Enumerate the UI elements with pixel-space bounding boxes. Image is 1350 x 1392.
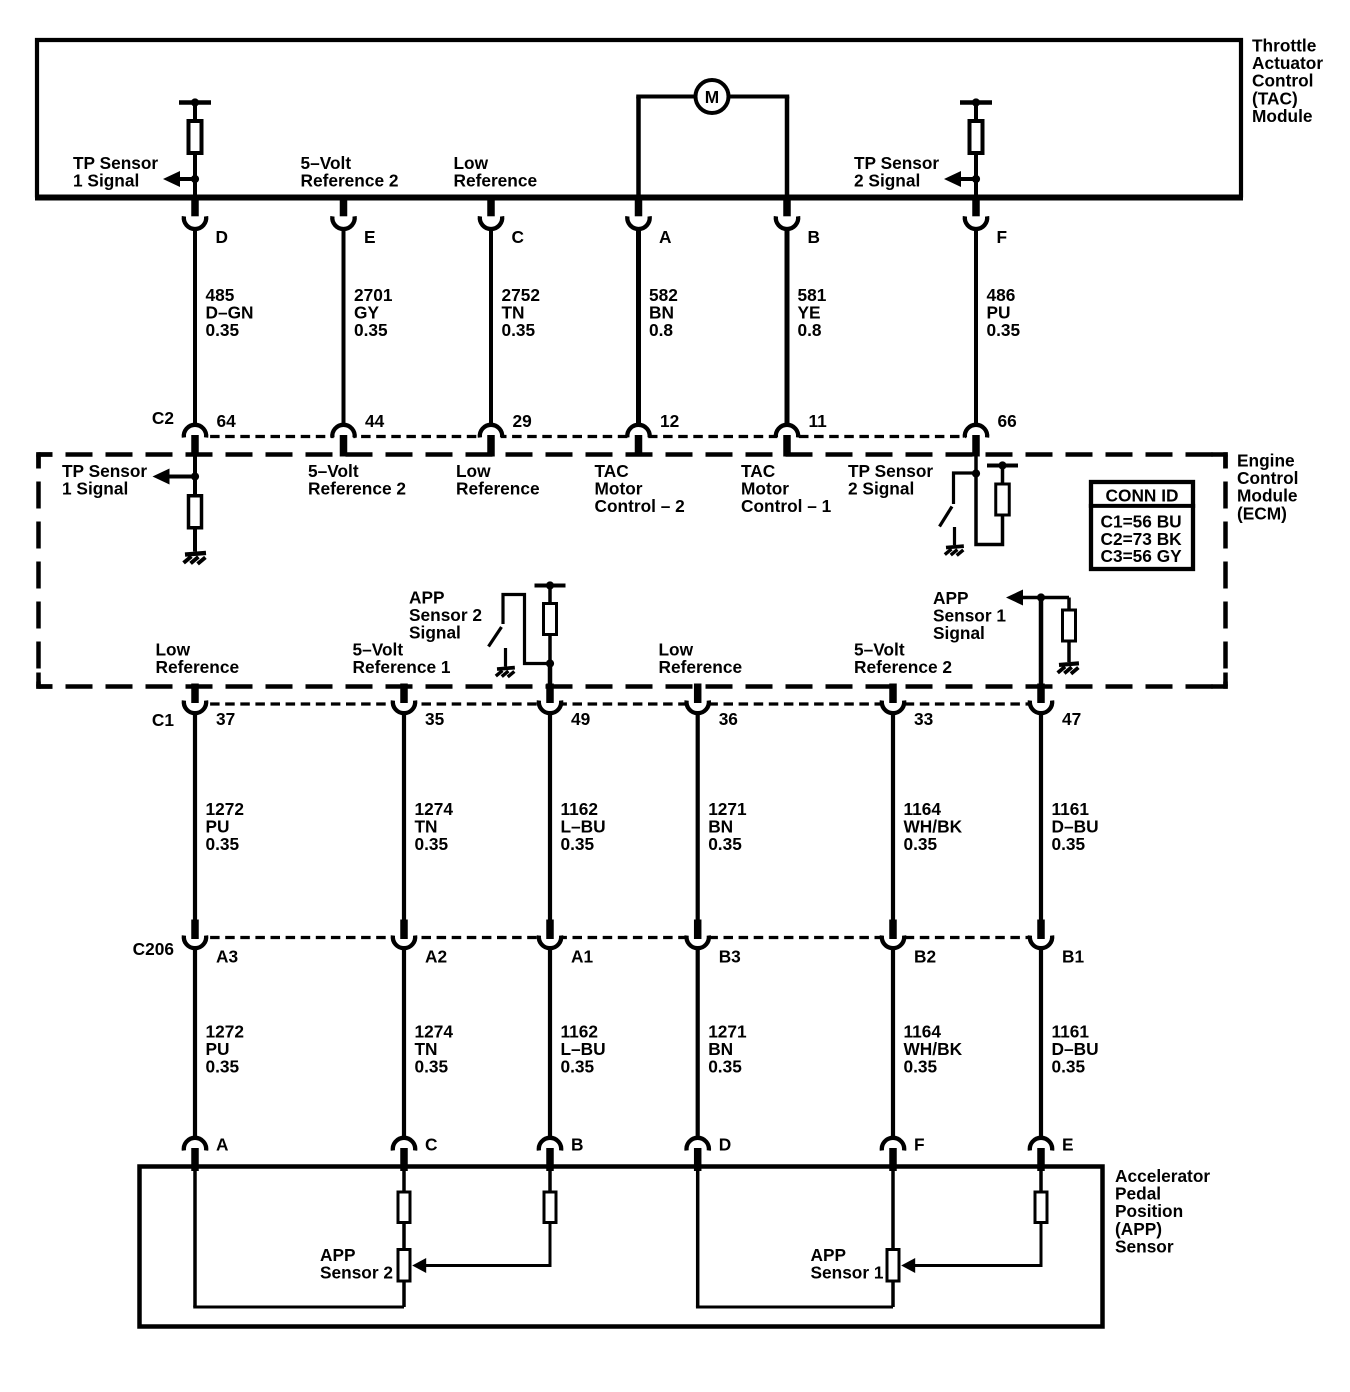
- svg-text:Signal: Signal: [933, 623, 985, 643]
- svg-text:2 Signal: 2 Signal: [848, 479, 914, 499]
- svg-text:D: D: [216, 227, 228, 247]
- svg-text:0.35: 0.35: [561, 834, 595, 854]
- svg-text:36: 36: [719, 709, 738, 729]
- svg-text:C1: C1: [152, 710, 174, 730]
- svg-text:A1: A1: [571, 947, 593, 967]
- svg-text:Control – 1: Control – 1: [741, 496, 832, 516]
- svg-text:0.35: 0.35: [561, 1057, 595, 1077]
- svg-text:A2: A2: [425, 947, 447, 967]
- svg-text:33: 33: [914, 709, 933, 729]
- svg-text:0.35: 0.35: [987, 320, 1021, 340]
- svg-text:A: A: [216, 1135, 229, 1155]
- svg-text:Module: Module: [1252, 106, 1313, 126]
- svg-text:35: 35: [425, 709, 445, 729]
- svg-text:Reference 2: Reference 2: [854, 657, 952, 677]
- svg-text:0.35: 0.35: [708, 1057, 742, 1077]
- svg-text:0.35: 0.35: [1052, 1057, 1086, 1077]
- svg-text:F: F: [914, 1135, 925, 1155]
- svg-text:F: F: [997, 227, 1008, 247]
- svg-text:47: 47: [1062, 709, 1081, 729]
- svg-text:C: C: [425, 1135, 437, 1155]
- svg-text:Reference: Reference: [156, 657, 240, 677]
- svg-text:E: E: [364, 227, 376, 247]
- svg-text:A: A: [659, 227, 672, 247]
- svg-text:0.35: 0.35: [415, 834, 449, 854]
- svg-text:0.35: 0.35: [206, 834, 240, 854]
- svg-text:Sensor: Sensor: [1115, 1236, 1174, 1256]
- svg-text:C2: C2: [152, 408, 174, 428]
- svg-text:1 Signal: 1 Signal: [73, 171, 139, 191]
- svg-text:Reference 1: Reference 1: [353, 657, 451, 677]
- svg-text:0.35: 0.35: [1052, 834, 1086, 854]
- svg-text:0.35: 0.35: [904, 1057, 938, 1077]
- svg-text:49: 49: [571, 709, 590, 729]
- svg-text:C3=56 GY: C3=56 GY: [1101, 546, 1183, 566]
- svg-text:0.35: 0.35: [206, 320, 240, 340]
- svg-text:Signal: Signal: [409, 623, 461, 643]
- svg-text:Reference 2: Reference 2: [308, 479, 406, 499]
- svg-text:0.35: 0.35: [904, 834, 938, 854]
- svg-text:0.8: 0.8: [798, 320, 822, 340]
- svg-text:64: 64: [217, 411, 237, 431]
- svg-text:(ECM): (ECM): [1237, 503, 1287, 523]
- svg-text:Sensor 2: Sensor 2: [320, 1263, 393, 1283]
- svg-text:44: 44: [365, 411, 385, 431]
- svg-text:B2: B2: [914, 947, 936, 967]
- svg-text:C206: C206: [133, 939, 174, 959]
- svg-text:0.35: 0.35: [206, 1057, 240, 1077]
- svg-text:Reference: Reference: [456, 479, 540, 499]
- svg-text:B: B: [571, 1135, 583, 1155]
- svg-text:11: 11: [809, 411, 828, 431]
- svg-text:66: 66: [998, 411, 1017, 431]
- svg-text:CONN ID: CONN ID: [1106, 486, 1179, 506]
- svg-text:Reference 2: Reference 2: [301, 171, 399, 191]
- svg-text:0.8: 0.8: [649, 320, 673, 340]
- svg-text:D: D: [719, 1135, 731, 1155]
- svg-text:A3: A3: [216, 947, 238, 967]
- svg-text:Reference: Reference: [454, 171, 538, 191]
- svg-text:B: B: [808, 227, 820, 247]
- svg-text:0.35: 0.35: [354, 320, 388, 340]
- svg-text:Control – 2: Control – 2: [595, 496, 685, 516]
- svg-text:0.35: 0.35: [502, 320, 536, 340]
- svg-text:2 Signal: 2 Signal: [854, 171, 920, 191]
- svg-text:37: 37: [216, 709, 235, 729]
- svg-text:C: C: [512, 227, 524, 247]
- svg-text:0.35: 0.35: [708, 834, 742, 854]
- svg-text:0.35: 0.35: [415, 1057, 449, 1077]
- svg-text:B1: B1: [1062, 947, 1084, 967]
- svg-text:Sensor 1: Sensor 1: [811, 1263, 884, 1283]
- svg-text:E: E: [1062, 1135, 1074, 1155]
- svg-text:1 Signal: 1 Signal: [62, 479, 128, 499]
- svg-text:B3: B3: [719, 947, 741, 967]
- svg-text:M: M: [705, 87, 719, 107]
- svg-text:Reference: Reference: [659, 657, 743, 677]
- svg-text:29: 29: [513, 411, 532, 431]
- svg-text:12: 12: [660, 411, 679, 431]
